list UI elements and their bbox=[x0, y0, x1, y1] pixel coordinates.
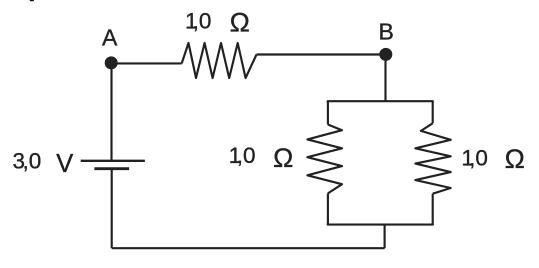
svg-text:,0: ,0 bbox=[193, 8, 212, 33]
wire: bottom return wire bbox=[112, 247, 385, 249]
svg-text:Ω: Ω bbox=[230, 8, 250, 38]
resistor R1 (1,0 ohm horizontal) bbox=[182, 43, 257, 78]
wire: right branch top stub bbox=[432, 101, 434, 123]
label R2 value 1,0 ohm bbox=[229, 143, 293, 173]
wire: battery to bottom return wire bbox=[111, 169, 113, 249]
label R3 value 1,0 ohm bbox=[461, 144, 524, 174]
wire top: resistor R1 to node B bbox=[257, 53, 386, 55]
wire: center stub from bottom bar down bbox=[384, 225, 386, 249]
wire top: node A to resistor R1 bbox=[112, 62, 182, 64]
wire: left branch top stub bbox=[327, 101, 329, 124]
stray cropped mark at top edge bbox=[30, 0, 34, 1]
battery B1 long plate (positive) bbox=[81, 160, 145, 162]
svg-text:B: B bbox=[379, 19, 394, 45]
svg-text:,0: ,0 bbox=[23, 149, 42, 174]
node A junction dot bbox=[105, 56, 118, 69]
wire: parallel top bar bbox=[328, 101, 433, 102]
wire: parallel bottom bar bbox=[328, 224, 433, 225]
svg-text:Ω: Ω bbox=[273, 143, 293, 173]
wire: node A down to battery bbox=[110, 63, 112, 160]
label battery voltage 3,0 V bbox=[13, 149, 74, 178]
wire: right branch bottom stub bbox=[432, 194, 434, 225]
svg-text:Ω: Ω bbox=[505, 144, 525, 174]
node B junction dot bbox=[379, 48, 392, 61]
battery B1 short plate (negative) bbox=[94, 167, 129, 170]
resistor R3 (1,0 ohm right vertical) bbox=[415, 123, 450, 193]
svg-text:,0: ,0 bbox=[237, 143, 256, 168]
svg-text:A: A bbox=[102, 25, 118, 51]
wire: left branch bottom stub bbox=[327, 193, 329, 224]
resistor R2 (1,0 ohm left vertical) bbox=[307, 125, 342, 194]
wire: node B down to parallel top bar bbox=[384, 54, 386, 101]
svg-text:V: V bbox=[56, 150, 73, 178]
label R1 value 1,0 ohm bbox=[185, 8, 250, 38]
svg-text:,0: ,0 bbox=[469, 145, 488, 170]
